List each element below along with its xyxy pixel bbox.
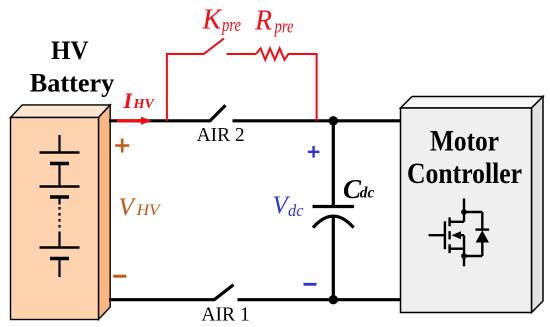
svg-text:dc: dc — [360, 184, 375, 201]
svg-text:Battery: Battery — [30, 68, 115, 97]
svg-text:Motor: Motor — [430, 125, 499, 158]
svg-text:Controller: Controller — [407, 157, 522, 190]
svg-text:pre: pre — [273, 17, 294, 38]
svg-text:R: R — [254, 6, 272, 37]
svg-text:I: I — [123, 88, 134, 113]
svg-text:AIR 1: AIR 1 — [201, 304, 250, 326]
svg-text:HV: HV — [51, 36, 89, 65]
svg-text:K: K — [202, 5, 223, 36]
svg-text:HV: HV — [135, 202, 161, 219]
svg-text:AIR 2: AIR 2 — [197, 124, 245, 146]
svg-text:dc: dc — [288, 201, 304, 220]
svg-text:HV: HV — [132, 97, 155, 112]
svg-text:pre: pre — [220, 15, 241, 36]
